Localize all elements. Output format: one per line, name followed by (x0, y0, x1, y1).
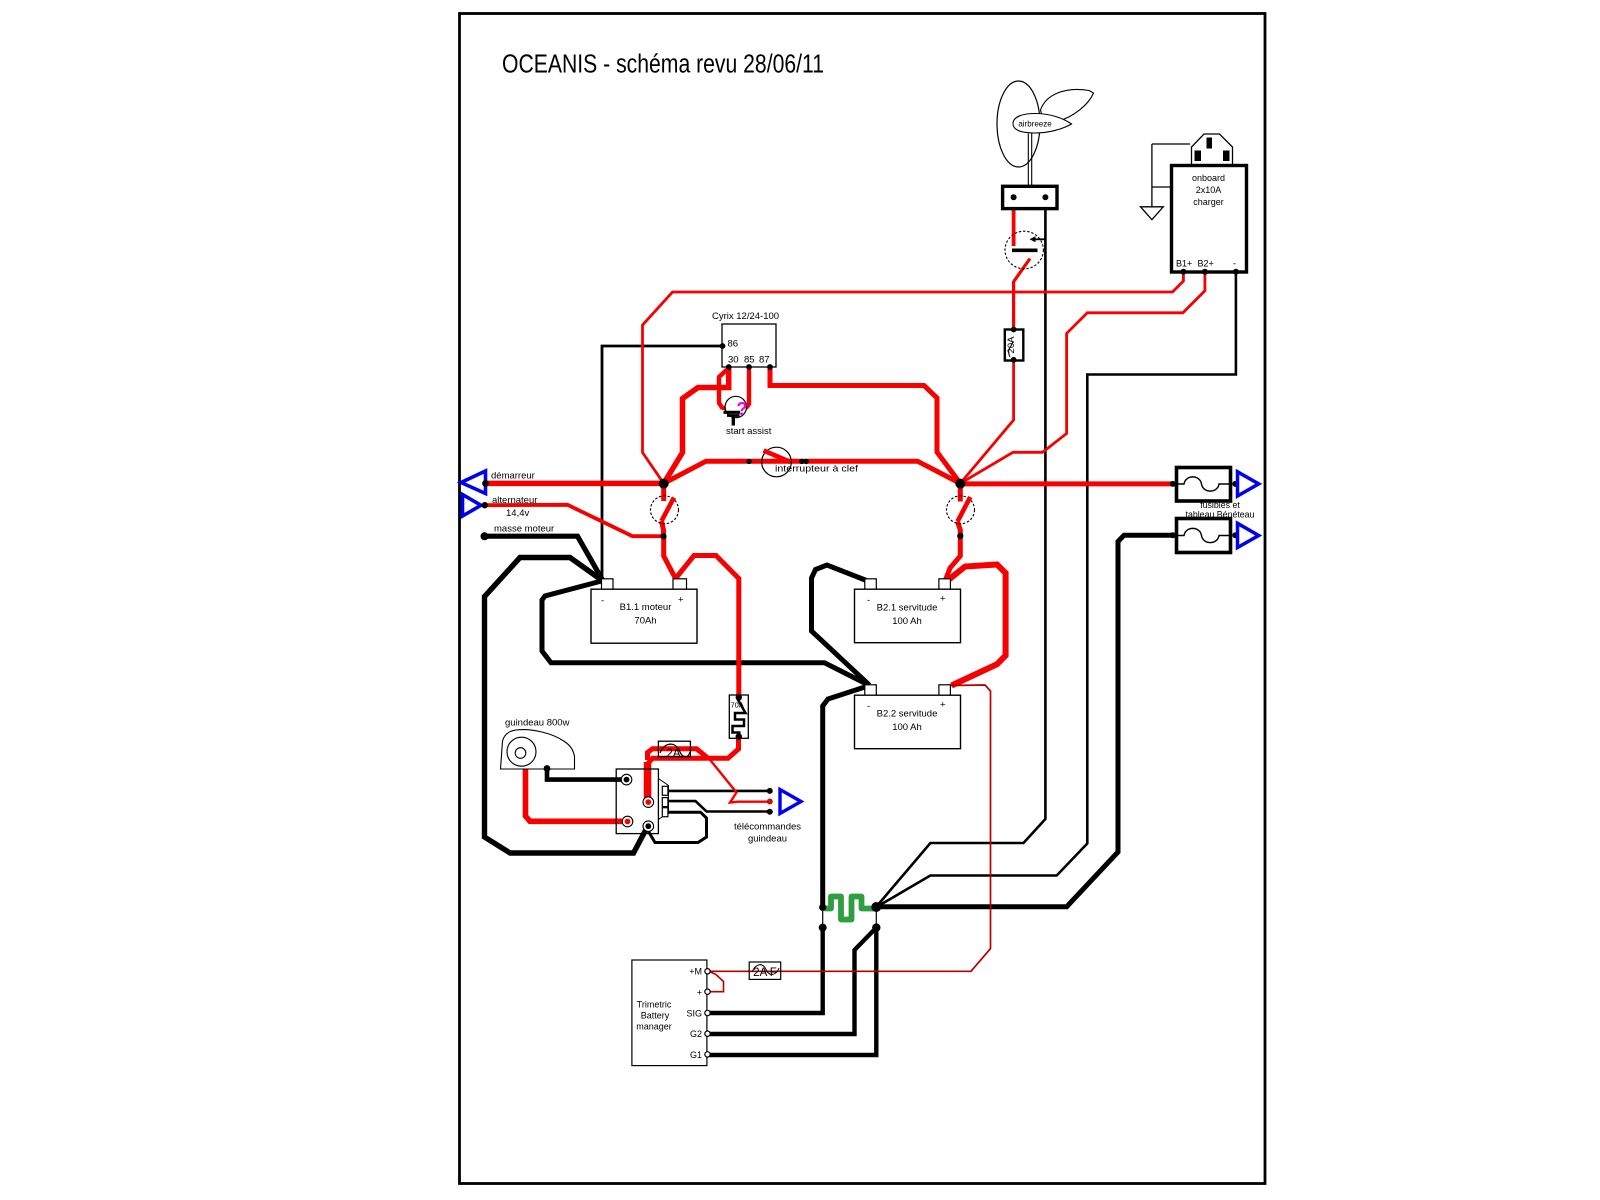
svg-text:télécommandes: télécommandes (734, 822, 801, 833)
node junction B (955, 479, 965, 489)
switch interrupteur a clef (746, 447, 858, 477)
svg-text:charger: charger (1193, 197, 1224, 207)
svg-text:14,4v: 14,4v (506, 508, 529, 519)
wire guindeau motor to relay top-left pin (547, 769, 622, 780)
wire B2.2 positive to Trimetric +M (710, 685, 991, 971)
svg-text:?: ? (737, 399, 748, 419)
wire airbreeze positive to connector (1012, 199, 1016, 246)
fuse holder fusibles 1 (1170, 468, 1239, 502)
node shunt left (819, 904, 826, 911)
wire ground loop B1.1 negative to windlass relay ground (485, 558, 647, 854)
node masse moteur (481, 524, 555, 541)
svg-text:alternateur: alternateur (492, 495, 537, 506)
svg-text:interrupteur à clef: interrupteur à clef (775, 464, 858, 475)
pin SIG (705, 1010, 710, 1015)
wire junction B to fusibles tableau (960, 481, 1172, 486)
shunt (green) (826, 897, 877, 920)
pin +M (705, 969, 710, 974)
ground (1141, 207, 1164, 220)
node below battery switch 1 (660, 533, 666, 539)
svg-text:30: 30 (728, 355, 739, 366)
svg-text:Battery: Battery (641, 1011, 670, 1021)
wire charger negative down to shunt (877, 272, 1236, 907)
node junction A (659, 479, 669, 489)
wire shunt right dot links (875, 907, 877, 927)
svg-text:tableau Bénéteau: tableau Bénéteau (1186, 510, 1255, 520)
svg-text:guindeau: guindeau (748, 834, 787, 845)
wire Cyrix pin87 to junction B (770, 367, 960, 483)
svg-text:Trimetric: Trimetric (637, 1000, 672, 1010)
battery B2.1 servitude (855, 579, 961, 643)
pin B1+ (1180, 269, 1186, 275)
node below battery switch 2 (957, 533, 963, 539)
wire B1.1 negative to B2.2 negative (542, 581, 870, 686)
svg-text:100 Ah: 100 Ah (892, 616, 922, 627)
wire relay pin1 to telecommande top (668, 790, 770, 793)
switch battery switch 2 (947, 496, 975, 524)
pin G1 (705, 1052, 710, 1057)
svg-text:fusibles et: fusibles et (1200, 500, 1240, 510)
svg-text:start assist: start assist (726, 426, 772, 437)
wire Cyrix pin85 to start assist (746, 367, 749, 408)
wire thin red to telecommande middle (709, 759, 770, 803)
wire 2A fuse loop (648, 749, 709, 760)
svg-text:G1: G1 (690, 1050, 702, 1060)
svg-text:OCEANIS - schéma revu 28/06/11: OCEANIS - schéma revu 28/06/11 (502, 51, 824, 79)
fuse 2A F (749, 962, 781, 979)
wire B2.1 negative to B2.2 negative (812, 565, 870, 685)
wire masse moteur to B1.1 negative (484, 536, 603, 580)
fuse holder fusibles 2 (1170, 519, 1239, 553)
fuse 2A (658, 741, 690, 760)
wire G1 to shunt right (710, 930, 877, 1055)
motor guindeau 800w (501, 718, 575, 772)
wire junction B to charger B2+ (960, 272, 1205, 483)
wire SIG to shunt left (710, 930, 823, 1013)
svg-text:87: 87 (759, 355, 770, 366)
svg-text:B1+: B1+ (1176, 259, 1192, 269)
switch battery switch 1 (651, 496, 679, 524)
wire B2.1 positive to B2.2 positive (947, 565, 1006, 686)
arrow fusibles tableau 2 (1238, 523, 1259, 547)
wire Cyrix pin86 to B1.1 negative (602, 346, 723, 580)
svg-text:+: + (678, 595, 684, 606)
wire key switch bus junction A to junction B (664, 461, 961, 483)
wire relay feed vertical (644, 762, 652, 799)
svg-text:B2+: B2+ (1198, 259, 1214, 269)
wire airbreeze negative down to shunt (877, 199, 1046, 907)
wire guindeau motor positive to relay bottom-left pin (526, 765, 623, 821)
svg-text:airbreeze: airbreeze (1018, 120, 1052, 129)
node SIG junction (819, 924, 827, 932)
arrow demarreur (461, 471, 535, 494)
svg-text:Cyrix 12/24-100: Cyrix 12/24-100 (712, 311, 779, 322)
svg-text:démarreur: démarreur (491, 471, 535, 482)
svg-text:B2.2 servitude: B2.2 servitude (877, 709, 938, 720)
svg-text:+: + (940, 594, 946, 605)
svg-text:+: + (940, 700, 946, 711)
svg-text:G2: G2 (690, 1029, 702, 1039)
svg-text:-: - (867, 701, 870, 712)
battery B1.1 moteur (591, 579, 697, 643)
meter Trimetric Battery manager (632, 960, 710, 1066)
wire junction B to 20A fuse (960, 360, 1013, 484)
wire junction B through battery switch 2 to B2.1 positive (958, 483, 963, 501)
svg-text:masse moteur: masse moteur (494, 524, 554, 535)
wire Cyrix pin30 to junction A (664, 367, 729, 483)
wire relay pin3 loop to relay bottom-center pin (647, 812, 707, 842)
svg-text:2x10A: 2x10A (1196, 185, 1222, 195)
wire alternateur to node under battery switch 1 (484, 505, 664, 536)
wire junction A through battery switch 1 (661, 483, 666, 501)
wire Trimetric +M to + (710, 972, 724, 992)
arrow telecommandes guindeau (734, 788, 801, 845)
svg-text:2A F: 2A F (753, 967, 777, 979)
svg-text:+: + (697, 988, 702, 998)
relay Cyrix 12/24-100 (712, 311, 779, 370)
connector airbreeze plug (1005, 231, 1045, 269)
svg-text:onboard: onboard (1192, 173, 1225, 183)
svg-text:B1.1 moteur: B1.1 moteur (620, 602, 672, 613)
arrow fusibles tableau 1 (1238, 472, 1259, 496)
charger onboard 2x10A (1141, 134, 1247, 275)
svg-text:70Ah: 70Ah (634, 616, 656, 627)
arrow alternateur (463, 495, 538, 520)
wire 70A fuse to windlass relay center pin (648, 737, 739, 800)
wire shunt left dot links (822, 907, 824, 927)
relay windlass control (616, 769, 668, 834)
svg-text:-: - (601, 596, 604, 607)
wire G2 to shunt right (710, 930, 875, 1035)
svg-text:-: - (867, 595, 870, 606)
pin relay top-left (621, 774, 632, 785)
wire Cyrix pin30 to start assist (719, 370, 727, 409)
svg-text:-: - (1233, 259, 1236, 269)
svg-text:85: 85 (744, 355, 755, 366)
wire demarreur bus to junction A (485, 481, 664, 487)
fuse 70A (729, 694, 748, 739)
pin G2 (705, 1031, 710, 1036)
pin relay bottom-center (643, 821, 654, 832)
svg-text:B2.1 servitude: B2.1 servitude (877, 603, 938, 614)
fuse 20A (1005, 327, 1024, 363)
wire 20A fuse to airbreeze connector (1014, 259, 1030, 330)
pin relay bottom-left (622, 816, 633, 827)
node shunt right (871, 902, 881, 912)
wire fusibles tableau negative down to shunt (876, 535, 1173, 906)
battery B2.2 servitude (855, 685, 961, 749)
wind generator airbreeze (997, 81, 1094, 209)
svg-text:manager: manager (636, 1022, 672, 1032)
pin + (705, 989, 710, 994)
svg-text:86: 86 (728, 339, 739, 350)
wire relay pin2 to telecommande bottom (668, 801, 770, 811)
wire battery switch 1 to B1.1 positive (664, 536, 676, 582)
wire charger B1+ to junction A (643, 272, 1184, 483)
wire B1.1 positive branch to 70A fuse (676, 556, 739, 697)
svg-text:guindeau 800w: guindeau 800w (505, 718, 570, 729)
pin relay center (643, 797, 654, 808)
svg-text:SIG: SIG (686, 1009, 702, 1019)
svg-text:2A: 2A (666, 748, 680, 760)
svg-text:100 Ah: 100 Ah (892, 722, 922, 733)
plug icon (1192, 134, 1233, 166)
svg-text:+M: +M (689, 967, 702, 977)
wire B2.2 negative down to shunt left (823, 686, 870, 906)
switch start assist (724, 396, 772, 437)
pin B2+ (1202, 269, 1208, 275)
node G1 G2 junction (872, 923, 880, 931)
pin minus (1233, 269, 1239, 275)
